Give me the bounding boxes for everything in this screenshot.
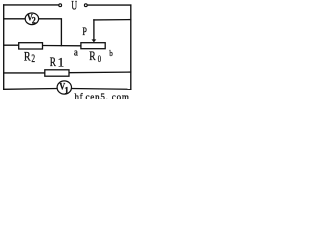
- svg-text:R: R: [24, 48, 31, 63]
- svg-text:P: P: [82, 24, 87, 38]
- svg-text:U: U: [71, 0, 77, 12]
- svg-text:0: 0: [98, 55, 101, 65]
- svg-text:cen5. com: cen5. com: [86, 92, 130, 99]
- svg-text:2: 2: [32, 16, 36, 26]
- svg-text:b: b: [109, 48, 112, 58]
- svg-text:R: R: [89, 48, 96, 63]
- svg-text:R: R: [50, 54, 56, 69]
- svg-text:1: 1: [58, 55, 65, 70]
- svg-text:hf: hf: [75, 92, 84, 99]
- svg-text:2: 2: [31, 51, 35, 65]
- svg-text:a: a: [74, 47, 78, 59]
- svg-text:1: 1: [64, 86, 69, 96]
